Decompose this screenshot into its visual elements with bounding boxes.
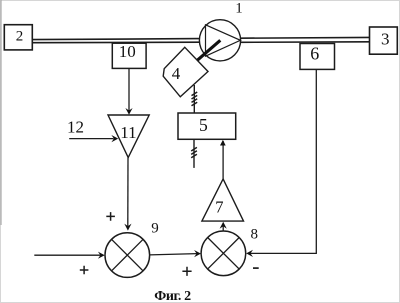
plus sign left input xyxy=(80,266,89,275)
arrowhead into summer 9 top xyxy=(124,224,131,231)
arrowhead into 8 left xyxy=(194,250,201,257)
svg-text:7: 7 xyxy=(215,198,223,217)
amplifier 7 (triangle up) xyxy=(202,179,244,221)
wire: shaft upper line left segment xyxy=(33,39,201,40)
wire: feedback horizontal into 8 xyxy=(251,252,317,254)
svg-text:10: 10 xyxy=(119,42,136,61)
arrowhead into 8 right xyxy=(246,250,253,257)
minus sign right of summer 8 xyxy=(253,267,259,269)
wire: feedback from 6 down xyxy=(315,69,317,253)
wire: input 12 into 11 xyxy=(69,138,113,140)
svg-text:2: 2 xyxy=(16,28,24,44)
svg-text:3: 3 xyxy=(381,30,390,49)
svg-text:12: 12 xyxy=(67,118,84,137)
wire: spring link 4 to 5 xyxy=(193,85,195,114)
svg-text:4: 4 xyxy=(172,64,181,83)
wire: shaft lower line left segment xyxy=(33,41,201,44)
plus sign between summers xyxy=(182,267,191,276)
actuator stem (thick link from 1 to 4) xyxy=(196,40,221,62)
block 3 xyxy=(370,27,398,54)
wire: summer 9 to summer 8 xyxy=(150,254,197,255)
block 2 xyxy=(4,25,32,50)
arrowhead of 12 input xyxy=(111,135,118,142)
spring symbol lower xyxy=(191,147,197,157)
spring symbol upper xyxy=(192,92,198,106)
arrowhead into 9 left xyxy=(98,252,105,259)
wire: arrow from 7 into 5 xyxy=(222,141,224,179)
block 6 xyxy=(300,44,335,70)
arrowhead into 11 xyxy=(125,108,132,115)
wire: shaft upper line right segment xyxy=(240,36,369,39)
wire: 10 down to amplifier 11 xyxy=(128,68,130,110)
wire: spring link below 5 xyxy=(193,139,195,168)
block 10 xyxy=(112,42,146,69)
summer 9 (circle with X) xyxy=(105,233,150,278)
plus sign above summer 9 xyxy=(106,212,115,221)
actuator 4 (rotated square with clipped corner) xyxy=(163,47,208,97)
svg-text:5: 5 xyxy=(199,115,208,135)
svg-text:6: 6 xyxy=(310,44,319,64)
wire: shaft lower line right segment xyxy=(240,41,369,44)
pump/valve unit 1 (circle with triangle) xyxy=(199,20,240,61)
svg-text:11: 11 xyxy=(120,123,136,142)
amplifier 11 (triangle down) xyxy=(108,115,149,158)
block 5 xyxy=(178,113,236,139)
wire: 11 down to summer 9 xyxy=(127,158,129,227)
svg-text:1: 1 xyxy=(235,1,243,17)
wire: summer 8 up to 7 xyxy=(222,226,224,231)
svg-text:9: 9 xyxy=(151,221,159,237)
arrowhead into 5 (solid) xyxy=(220,140,226,146)
wire: left input into summer 9 xyxy=(34,254,101,256)
svg-text:8: 8 xyxy=(251,226,259,242)
summer 8 (circle with X) xyxy=(201,231,246,276)
svg-text:Фиг. 2: Фиг. 2 xyxy=(154,289,191,303)
arrowhead into 7 base xyxy=(220,222,227,229)
